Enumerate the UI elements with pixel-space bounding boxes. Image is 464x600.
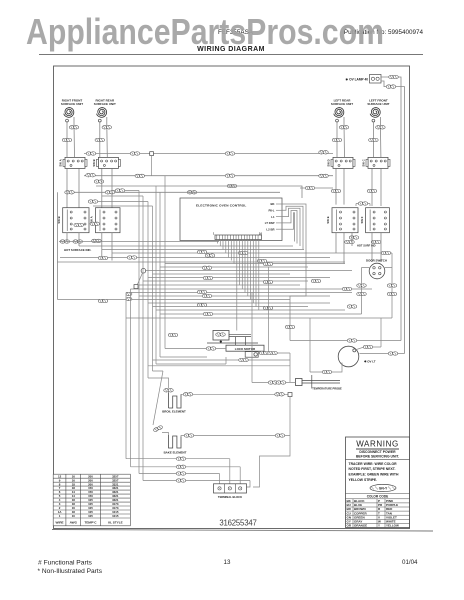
EOC connector strip P1	[213, 232, 262, 240]
surface switch SW A	[59, 157, 87, 168]
svg-text:# Functional Parts: # Functional Parts	[38, 560, 93, 567]
bus splices	[98, 256, 108, 260]
svg-text:✱ OV LT: ✱ OV LT	[364, 360, 376, 364]
svg-text:TEMP°C: TEMP°C	[84, 520, 97, 524]
svg-text:SURFACE UNIT: SURFACE UNIT	[367, 102, 389, 106]
svg-text:LT DSP: LT DSP	[265, 221, 275, 225]
splice right on y152.3	[319, 151, 329, 155]
svg-text:SW C: SW C	[362, 159, 366, 166]
splice inside-left row2	[74, 223, 84, 227]
svg-text:GN-Y: GN-Y	[379, 487, 388, 491]
EOC pin wires fan-out	[218, 240, 259, 331]
surface switch SW B	[92, 157, 120, 168]
wire gauge table	[53, 474, 130, 526]
svg-text:P8-L: P8-L	[268, 209, 274, 213]
surface switch SW C	[362, 157, 390, 168]
wire y192	[65, 191, 280, 193]
splice on jog	[88, 200, 98, 204]
door switch side wires	[362, 253, 393, 318]
svg-text:YELLOW STRIPE.: YELLOW STRIPE.	[349, 478, 378, 482]
junction square at probe/bake	[288, 393, 292, 397]
wire y186	[96, 186, 302, 198]
svg-text:AWG: AWG	[70, 520, 78, 524]
svg-text:Y: Y	[378, 524, 380, 528]
diagram border frame	[54, 66, 410, 529]
oven/infinite switch SW B	[57, 208, 89, 233]
svg-text:* Non-Illustrated Parts: * Non-Illustrated Parts	[38, 568, 103, 575]
oven lamp wires to right bus	[381, 77, 401, 341]
short wire with splice at x310	[300, 187, 333, 189]
svg-text:TEMPERATURE PROBE: TEMPERATURE PROBE	[312, 386, 342, 390]
left rear surface unit coil	[331, 99, 353, 158]
supply wire rows to terminal block	[126, 459, 250, 487]
right front surface unit coil	[61, 99, 83, 158]
header rule	[39, 54, 423, 56]
splice on lamp wire 1	[389, 75, 399, 79]
oven/infinite switch SW E	[326, 208, 358, 233]
svg-text:LOCK MOTOR: LOCK MOTOR	[235, 347, 256, 351]
splice diagonal left	[153, 425, 163, 432]
svg-text:HOT SURF IND: HOT SURF IND	[357, 244, 376, 248]
broil right splice/wire	[183, 393, 193, 397]
vertical from bus to cam wire	[268, 267, 270, 353]
svg-text:10: 10	[72, 514, 76, 518]
junction square node	[134, 285, 138, 289]
middle wire bus horizontals	[57, 242, 392, 319]
stub from junction square down to y175.7	[151, 156, 153, 176]
svg-text:NOTED FIRST, STRIPE NEXT.: NOTED FIRST, STRIPE NEXT.	[349, 467, 396, 471]
svg-text:SURFACE UNIT: SURFACE UNIT	[331, 102, 353, 106]
svg-text:SW A: SW A	[59, 159, 63, 166]
terminal block	[214, 484, 247, 493]
splice between row2 left boxes	[90, 222, 100, 226]
diagonal from relay node to junction square	[138, 273, 143, 285]
GN-Y example oval	[370, 484, 396, 491]
oven lamp box	[370, 75, 382, 84]
svg-text:SW B: SW B	[92, 159, 96, 166]
EOC pin labels	[265, 202, 282, 231]
svg-text:WIRE: WIRE	[56, 520, 64, 524]
cam switch right wire	[258, 352, 290, 354]
lock motor left wire	[165, 348, 226, 350]
upper jog wires to bundle	[88, 191, 153, 207]
svg-text:BAKE ELEMENT: BAKE ELEMENT	[164, 451, 187, 455]
temperature probe body	[302, 375, 340, 389]
lock motor box	[226, 345, 264, 351]
warning box	[346, 437, 410, 528]
jog between right row2 boxes	[356, 204, 370, 207]
bake right splice/wire	[184, 434, 194, 438]
svg-text:EXAMPLE: GREEN WIRE WITH: EXAMPLE: GREEN WIRE WITH	[349, 473, 399, 477]
splices on upper bus mid-span	[225, 152, 235, 156]
svg-text:316255347: 316255347	[219, 519, 256, 528]
splice right verticals b	[367, 189, 377, 193]
lock area bottom wire	[148, 353, 290, 382]
splice mid on y175.7	[135, 174, 145, 178]
svg-text:13: 13	[224, 559, 231, 566]
splice right on y175.7	[319, 174, 329, 178]
electronic oven control box U1	[180, 198, 282, 241]
door switch	[369, 263, 385, 279]
svg-text:SW F: SW F	[360, 216, 364, 223]
svg-text:HOT SURFACE IND.: HOT SURFACE IND.	[64, 248, 91, 252]
bake element	[169, 435, 182, 448]
svg-text:SURFACE UNIT: SURFACE UNIT	[61, 102, 83, 106]
bus wire y153.5	[84, 153, 333, 155]
oven light splices	[347, 339, 357, 343]
interlock pivot dot	[220, 341, 222, 343]
wire segments row1 to row2 right	[336, 169, 381, 207]
svg-text:L1: L1	[271, 215, 275, 219]
EOC right-side wires	[282, 204, 306, 341]
svg-text:✱ OV LAMP 40: ✱ OV LAMP 40	[346, 78, 369, 82]
svg-text:ELECTRONIC OVEN CONTROL: ELECTRONIC OVEN CONTROL	[196, 204, 247, 208]
right rear surface unit coil	[94, 99, 116, 158]
svg-text:TRACER WIRE: WIRE COLOR: TRACER WIRE: WIRE COLOR	[349, 462, 398, 466]
svg-text:WIRING DIAGRAM: WIRING DIAGRAM	[197, 46, 265, 53]
svg-text:UL STYLE: UL STYLE	[108, 520, 123, 524]
junction square on bus y153.5	[150, 152, 154, 156]
oven/infinite switch SW A	[90, 208, 120, 233]
right-side feed to terminal block	[253, 436, 290, 488]
left vertical wire from SW A down	[57, 192, 59, 299]
left front surface unit coil	[367, 99, 389, 158]
splice left on y153.5	[86, 152, 96, 156]
splice on lamp wire 2	[386, 85, 396, 89]
splices below right row2 boxes	[349, 236, 359, 240]
svg-text:01/04: 01/04	[402, 559, 418, 566]
left wire bundle verticals	[126, 176, 165, 481]
lock bracket	[207, 334, 258, 345]
lock area lower wire	[153, 359, 291, 361]
svg-text:YELLOW: YELLOW	[386, 524, 399, 528]
svg-text:SW E: SW E	[326, 216, 330, 223]
splice left on y175.7	[86, 173, 96, 177]
svg-text:DOOR SWITCH: DOOR SWITCH	[366, 259, 387, 263]
svg-text:COLOR CODE: COLOR CODE	[367, 495, 389, 499]
broil top wire	[148, 378, 169, 388]
svg-text:BEFORE SERVICING UNIT.: BEFORE SERVICING UNIT.	[356, 454, 399, 458]
oven light	[338, 346, 359, 367]
splice on y192 left	[65, 191, 75, 195]
svg-text:L2 BR: L2 BR	[266, 227, 274, 231]
svg-text:SW D: SW D	[327, 159, 331, 166]
splice y-merge	[126, 292, 132, 296]
color code table	[346, 493, 410, 495]
wire segments row1 to row2 left	[67, 169, 112, 208]
svg-text:SURFACE UNIT: SURFACE UNIT	[94, 102, 116, 106]
svg-text:1015: 1015	[112, 514, 119, 518]
svg-text:BROIL ELEMENT: BROIL ELEMENT	[162, 410, 186, 414]
probe wire left with splices	[252, 382, 296, 384]
bus wire y175.7	[84, 175, 333, 177]
oven/infinite switch SW F	[360, 208, 390, 233]
splice on y192 mid	[105, 191, 115, 195]
splices below left row2 boxes	[60, 240, 70, 244]
motor cam switch box	[245, 352, 258, 358]
wires below left row2 switches	[67, 233, 112, 261]
bundle turn wires	[156, 357, 226, 364]
footer rule	[52, 530, 433, 532]
splice right verticals a	[331, 189, 341, 193]
door switch splices	[357, 284, 367, 288]
splices on supply rows	[176, 457, 186, 461]
temperature probe jack	[296, 379, 303, 386]
svg-text:BK: BK	[270, 202, 274, 206]
svg-text:105: 105	[88, 514, 93, 518]
wires below right row2 switches	[336, 233, 381, 264]
splice mid on y153.5	[130, 152, 140, 156]
svg-text:WARNING: WARNING	[356, 440, 399, 449]
door interlock switch box	[213, 331, 229, 341]
oven light wires	[290, 318, 405, 372]
svg-text:TERMINAL BLOCK: TERMINAL BLOCK	[218, 495, 242, 499]
splice below SW A	[94, 180, 104, 184]
svg-text:ORANGE: ORANGE	[354, 524, 367, 528]
broil element	[164, 389, 174, 393]
surface switch SW D	[327, 157, 355, 168]
relay contact circle node	[141, 268, 146, 273]
